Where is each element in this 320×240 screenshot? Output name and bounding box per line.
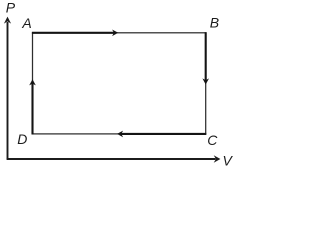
wire C to D with arrow (process C->D) — [117, 131, 206, 138]
svg-text:A: A — [21, 15, 31, 31]
rectangle cycle outline (thin) — [33, 33, 206, 134]
P axis — [4, 17, 11, 160]
wire B to C with arrow (process B->C) — [202, 32, 209, 84]
wire A to B with arrow (process A->B) — [32, 30, 118, 37]
V axis — [7, 155, 221, 162]
svg-text:V: V — [223, 153, 234, 169]
wire D to A with arrow (process D->A) — [29, 79, 36, 134]
svg-text:P: P — [6, 0, 16, 15]
svg-text:B: B — [210, 15, 219, 31]
svg-text:C: C — [207, 132, 218, 148]
svg-text:D: D — [17, 131, 27, 147]
